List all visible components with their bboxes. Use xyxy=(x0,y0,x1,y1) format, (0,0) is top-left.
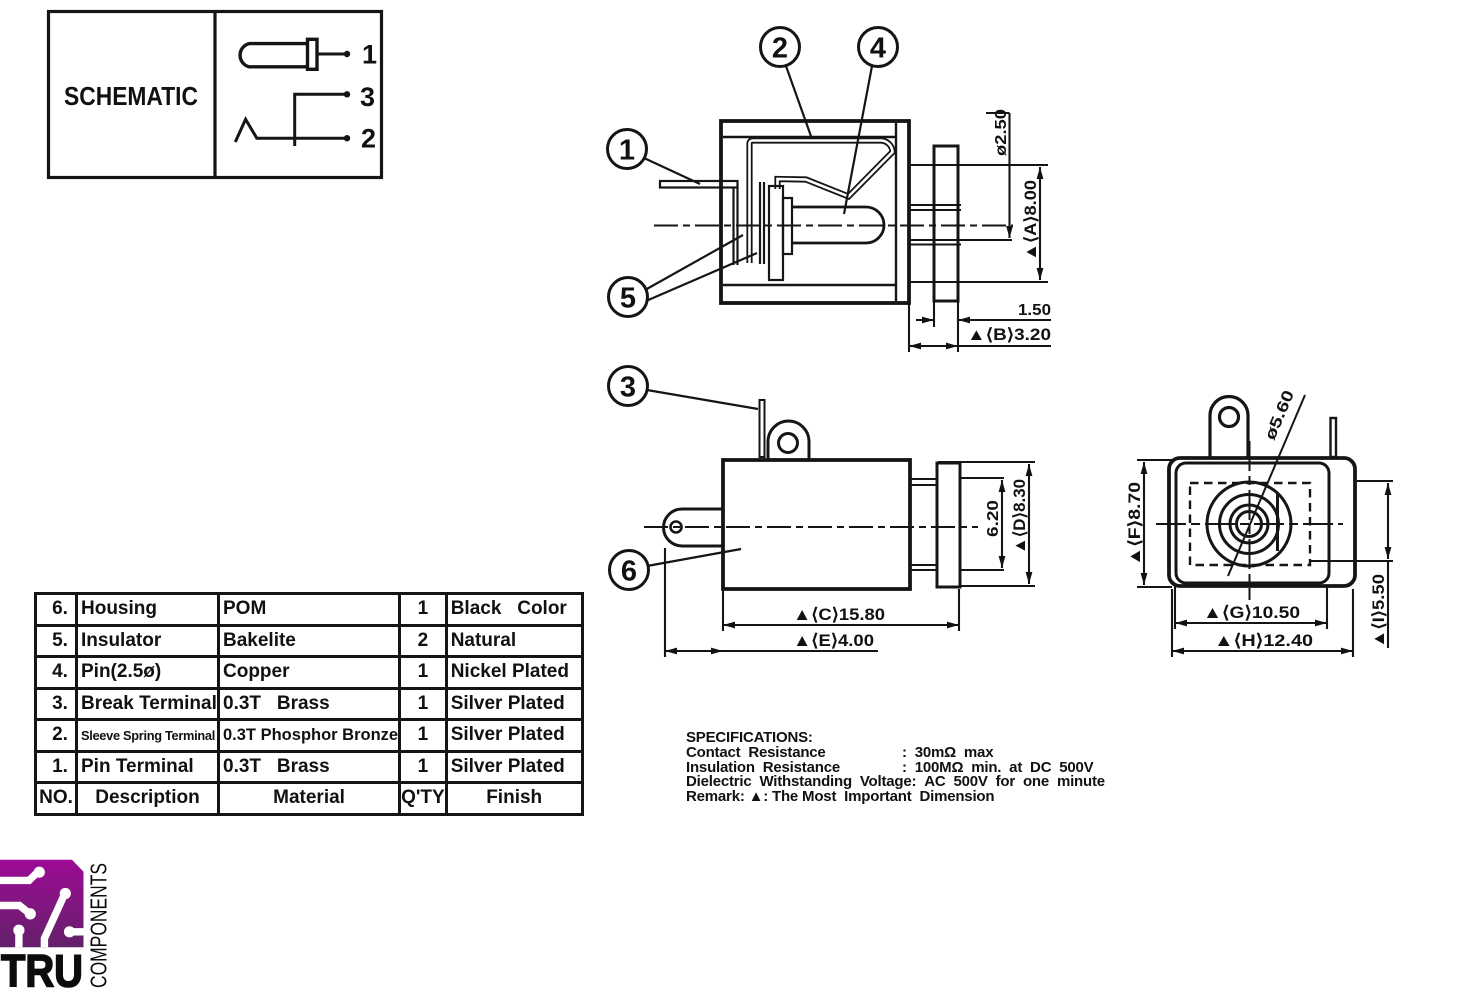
schematic box frame xyxy=(49,12,382,178)
front inner face xyxy=(1176,463,1329,583)
svg-text:6: 6 xyxy=(621,556,637,588)
insulator discs (5) xyxy=(769,186,792,280)
wire pin 2 spring contact xyxy=(235,119,345,142)
svg-text:▲⟨D⟩8.30: ▲⟨D⟩8.30 xyxy=(1011,479,1029,554)
wire pin 1 xyxy=(317,51,350,57)
housing outline (section) xyxy=(721,121,909,303)
dimension (F)8.70 xyxy=(1137,460,1172,587)
svg-text:6.20: 6.20 xyxy=(985,500,1002,537)
wire pin 3 xyxy=(295,94,345,146)
svg-text:ø5.60: ø5.60 xyxy=(1262,388,1298,443)
svg-text:▲⟨E⟩4.00: ▲⟨E⟩4.00 xyxy=(793,631,874,650)
dimension (A)8.00 xyxy=(1039,167,1041,280)
mounting tab with hole xyxy=(768,421,809,459)
node 3 label xyxy=(360,82,375,112)
panel flange side xyxy=(937,463,960,587)
centerline top view xyxy=(654,225,1013,227)
svg-text:ø2.50: ø2.50 xyxy=(993,109,1010,156)
svg-text:4: 4 xyxy=(870,33,886,65)
concentric barrel circles xyxy=(1207,482,1291,566)
barrel lines xyxy=(910,479,937,570)
svg-text:▲⟨C⟩15.80: ▲⟨C⟩15.80 xyxy=(793,605,885,624)
pin terminal lug xyxy=(664,509,724,546)
dimension d5.60 leader xyxy=(1228,395,1305,576)
svg-text:1: 1 xyxy=(619,135,635,167)
svg-text:▲⟨H⟩12.40: ▲⟨H⟩12.40 xyxy=(1214,631,1313,650)
front mounting tab xyxy=(1210,397,1248,459)
body outline xyxy=(723,460,910,589)
svg-text:TRU: TRU xyxy=(1,946,83,988)
svg-text:▲⟨I⟩5.50: ▲⟨I⟩5.50 xyxy=(1370,574,1388,648)
logo circuit traces xyxy=(0,872,84,947)
dimension d2.50 xyxy=(986,113,1010,238)
housing inner liner xyxy=(723,122,896,302)
jack plug symbol xyxy=(240,39,317,69)
callout 5 xyxy=(609,235,758,317)
dimension (I)5.50 xyxy=(1310,481,1393,648)
pin terminal (1) bar xyxy=(660,181,738,265)
logo tile xyxy=(0,860,84,948)
dimension (E)4.00 xyxy=(665,548,878,657)
node 2 label xyxy=(361,124,376,154)
break terminal vertical (3) xyxy=(760,182,764,264)
callout 3 xyxy=(609,367,759,410)
bushing lines to flange xyxy=(909,165,1048,282)
svg-text:1.50: 1.50 xyxy=(1018,302,1051,319)
node 1 label xyxy=(362,40,377,70)
centerline side view xyxy=(644,526,978,528)
dimension (C)15.80 xyxy=(723,589,959,631)
sleeve spring terminal (2) xyxy=(750,141,893,264)
svg-text:2: 2 xyxy=(772,33,788,65)
svg-text:5: 5 xyxy=(620,283,636,315)
specifications block xyxy=(686,731,1105,805)
front terminal pin top right xyxy=(1331,418,1337,457)
callout 6 xyxy=(610,549,742,590)
parts list table xyxy=(34,592,584,816)
svg-text:2: 2 xyxy=(361,124,376,154)
schematic title xyxy=(64,81,198,111)
logo wordmark TRU xyxy=(1,946,83,988)
center pin (4) xyxy=(792,207,884,243)
callout 1 xyxy=(608,130,701,185)
svg-text:1: 1 xyxy=(362,40,377,70)
front outer body xyxy=(1169,458,1355,586)
svg-text:▲⟨G⟩10.50: ▲⟨G⟩10.50 xyxy=(1203,603,1300,622)
dimension (G)10.50 xyxy=(1175,585,1327,629)
dimension (H)12.40 xyxy=(1172,589,1353,657)
break terminal pin (3) xyxy=(760,400,765,457)
dimension (D)8.30 xyxy=(938,462,1035,586)
svg-text:3: 3 xyxy=(620,372,636,404)
dimension (B)3.20 xyxy=(909,304,1051,352)
svg-text:3: 3 xyxy=(360,82,375,112)
svg-text:SCHEMATIC: SCHEMATIC xyxy=(64,81,198,111)
callout 4 xyxy=(844,28,898,215)
callout 2 xyxy=(761,28,813,140)
svg-text:▲⟨F⟩8.70: ▲⟨F⟩8.70 xyxy=(1126,482,1144,566)
svg-text:▲⟨A⟩8.00: ▲⟨A⟩8.00 xyxy=(1022,180,1040,261)
front crosshair centerlines xyxy=(1156,441,1343,600)
logo wordmark COMPONENTS xyxy=(86,863,112,988)
dimension 1.50 xyxy=(916,302,1051,352)
panel flange (section) xyxy=(934,146,958,301)
TRU COMPONENTS logo xyxy=(0,855,130,988)
dashed opening rect xyxy=(1190,483,1310,565)
svg-text:COMPONENTS: COMPONENTS xyxy=(86,863,112,988)
svg-text:▲⟨B⟩3.20: ▲⟨B⟩3.20 xyxy=(967,326,1051,344)
dimension 6.20 xyxy=(960,478,1004,570)
